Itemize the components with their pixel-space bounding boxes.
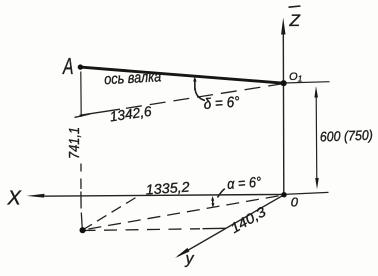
- svg-text:1335,2: 1335,2: [145, 178, 190, 197]
- svg-text:741,1: 741,1: [66, 127, 83, 159]
- svg-text:140,3: 140,3: [228, 203, 269, 236]
- svg-text:600 (750): 600 (750): [320, 128, 373, 145]
- svg-text:Z: Z: [288, 12, 300, 30]
- svg-text:A: A: [62, 53, 74, 79]
- svg-text:α = 6°: α = 6°: [227, 175, 262, 193]
- svg-text:X: X: [7, 188, 22, 210]
- svg-text:0: 0: [291, 195, 299, 210]
- svg-text:ось валка: ось валка: [104, 68, 162, 88]
- svg-text:1342,6: 1342,6: [109, 103, 153, 125]
- svg-text:O1: O1: [289, 71, 303, 84]
- svg-text:δ = 6°: δ = 6°: [203, 94, 240, 113]
- svg-text:y: y: [185, 251, 195, 268]
